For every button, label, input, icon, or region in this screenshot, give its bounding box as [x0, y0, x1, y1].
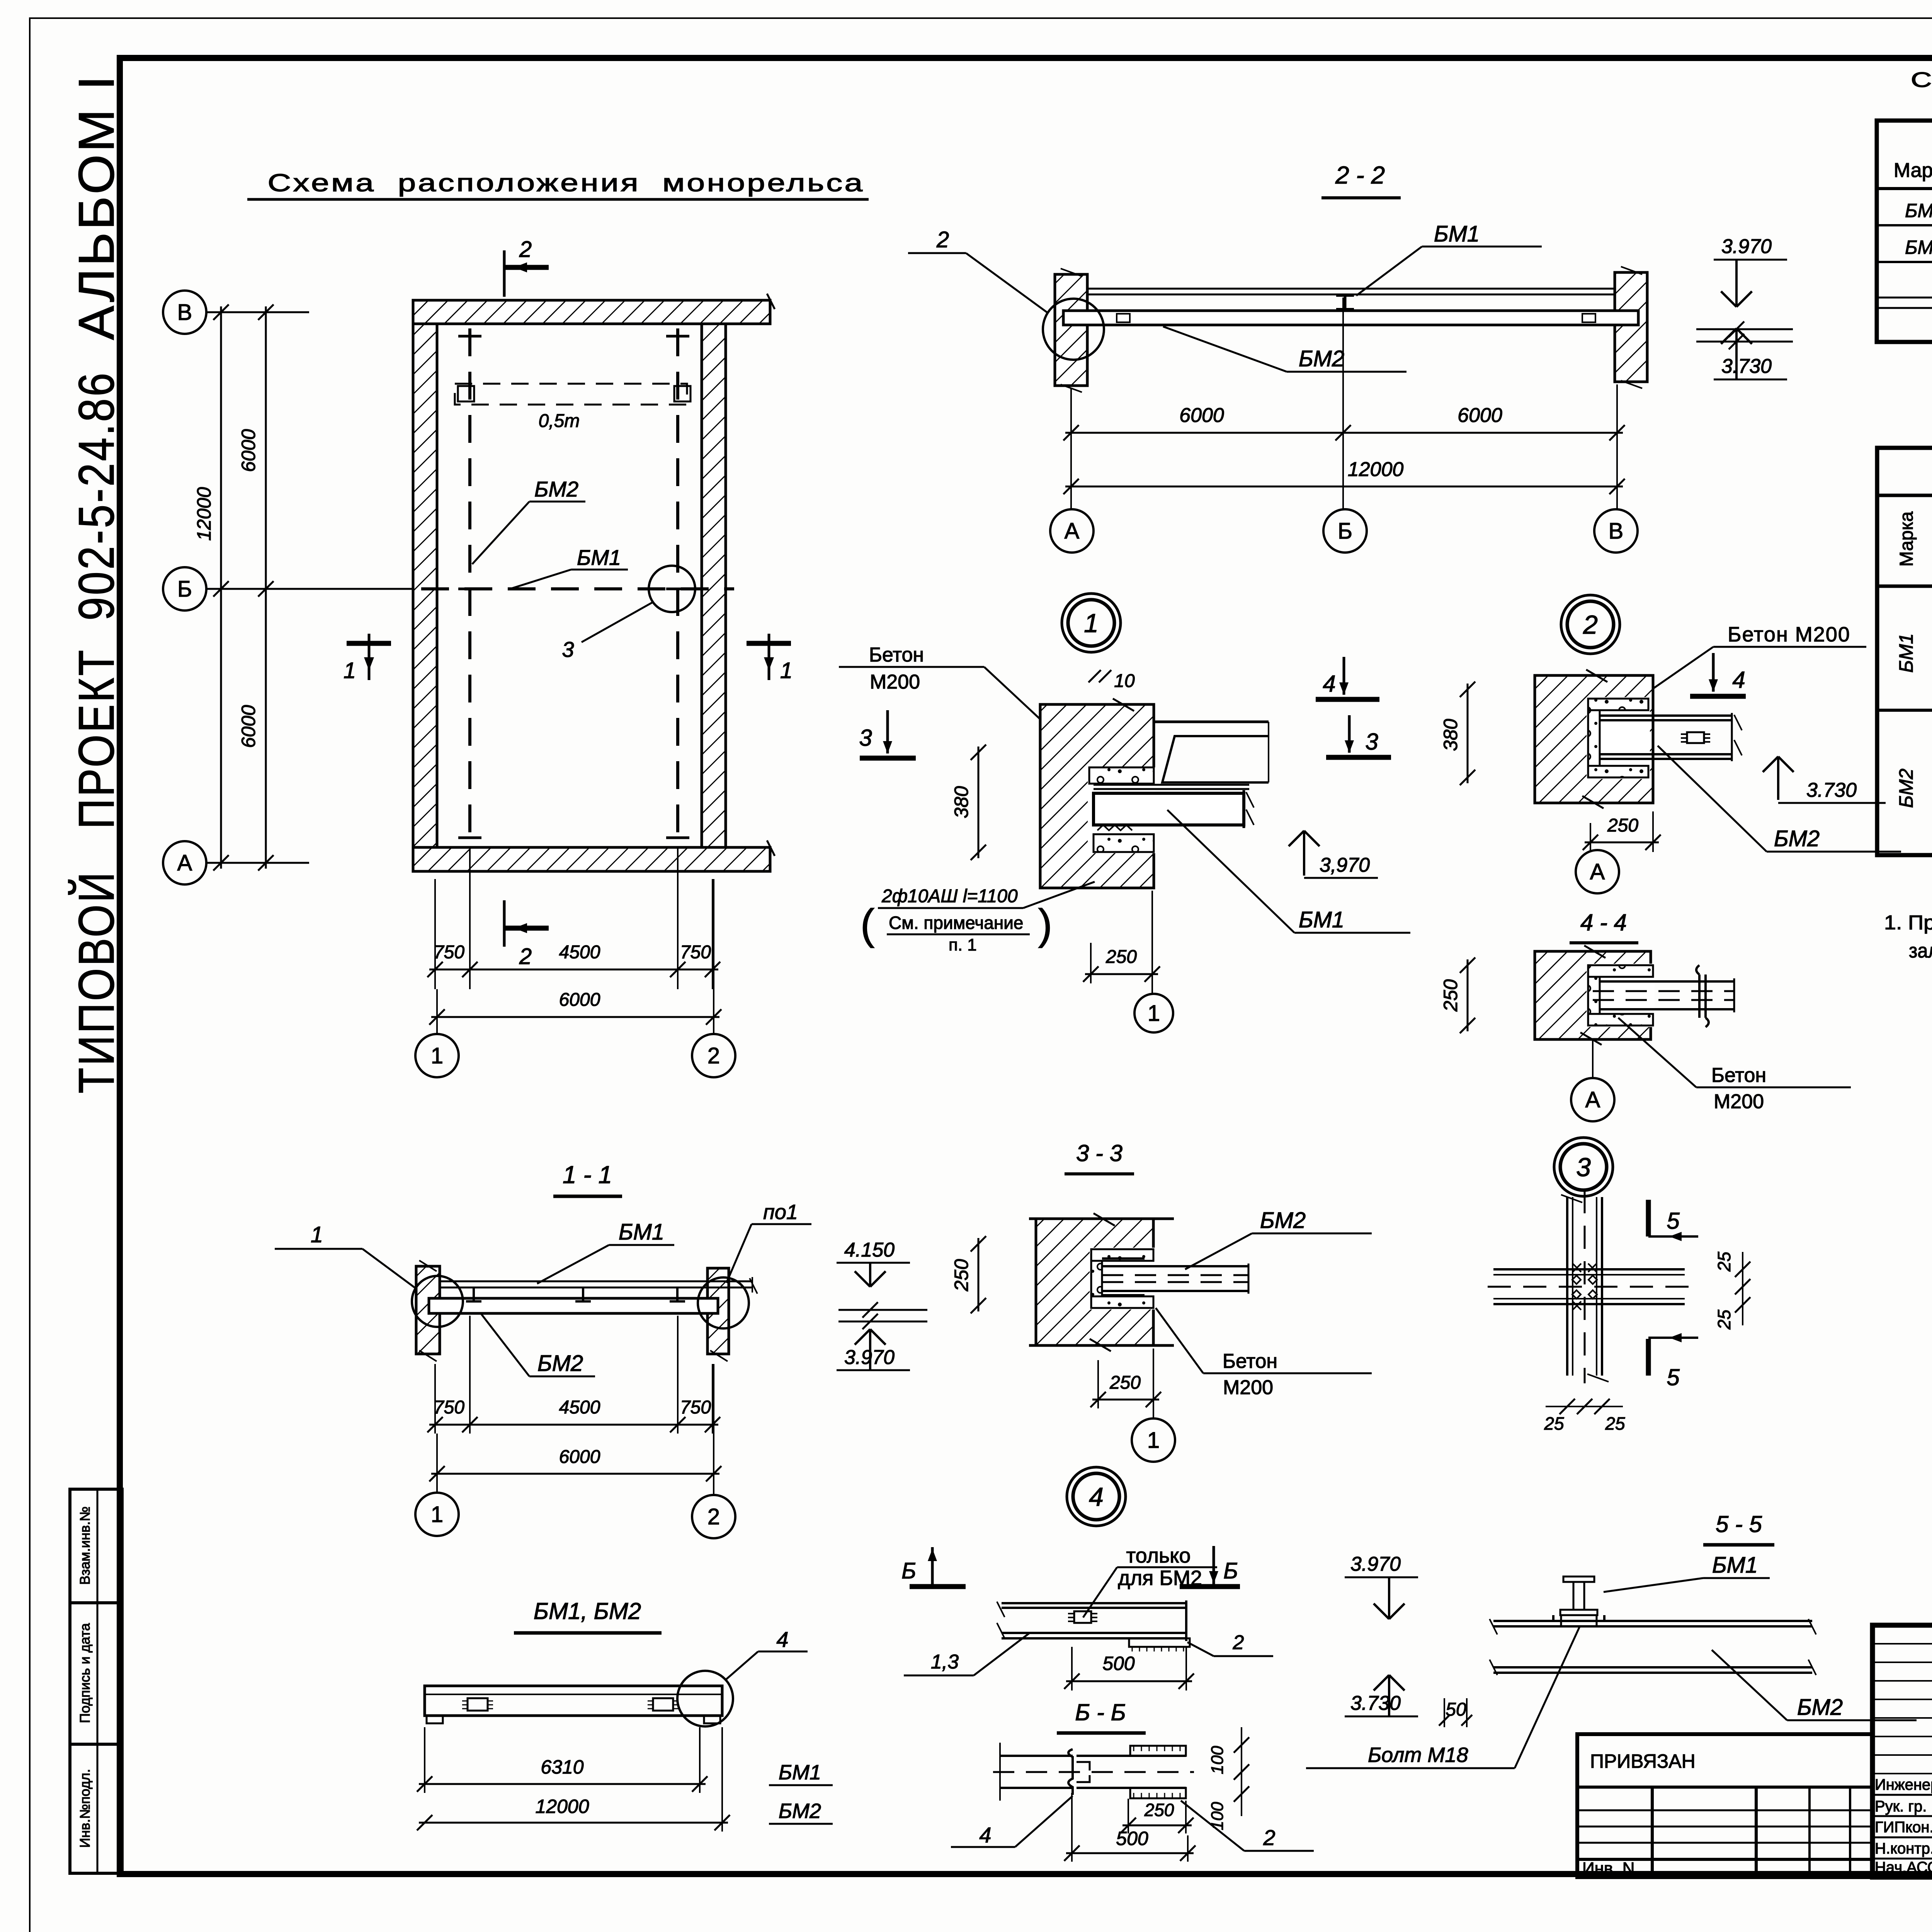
plan section flag 2 bottom — [503, 900, 506, 947]
2-2 beam fixing plates — [1117, 314, 1130, 322]
svg-text:500: 500 — [1102, 1653, 1135, 1674]
svg-text:Бетон: Бетон — [1223, 1350, 1277, 1372]
node2 dim 250 — [1585, 842, 1659, 844]
svg-text:100: 100 — [1208, 1746, 1227, 1774]
plan axis end ticks — [458, 335, 481, 338]
svg-text:25: 25 — [1714, 1252, 1734, 1272]
svg-text:3.730: 3.730 — [1806, 779, 1857, 801]
node3 dims 25/25 bottom — [1546, 1406, 1623, 1407]
svg-text:Б - Б: Б - Б — [1075, 1699, 1126, 1725]
axis circle В — [163, 291, 206, 334]
4-4 wall breaks — [1584, 946, 1605, 958]
title block left thin rows — [1872, 1643, 1932, 1645]
2-2 right wall — [1615, 272, 1647, 382]
svg-text:3: 3 — [1576, 1153, 1591, 1182]
node marker 4 (double circle) — [1067, 1467, 1126, 1526]
privyazan header line — [1577, 1786, 1872, 1789]
svg-text:Марка: Марка — [1894, 159, 1932, 182]
plan bottom extension lines — [434, 879, 436, 989]
axis circle Б (2-2) — [1323, 509, 1367, 553]
spec table frame — [1877, 121, 1932, 342]
svg-text:Болт М18: Болт М18 — [1368, 1743, 1468, 1767]
svg-text:380: 380 — [1440, 719, 1461, 751]
node2 elevation 3.730 — [1777, 757, 1779, 800]
node2 beam БМ2 flanges — [1600, 714, 1732, 717]
Б-Б dim 500 — [1071, 1793, 1073, 1862]
svg-text:БМ2: БМ2 — [1774, 826, 1820, 851]
svg-text:2: 2 — [1583, 610, 1598, 639]
node2 dim 380 — [1467, 684, 1469, 783]
Б-Б left end ticks — [999, 1743, 1001, 1801]
svg-text:6000: 6000 — [559, 990, 600, 1010]
node1 concrete encasement — [1089, 767, 1154, 784]
svg-text:1: 1 — [1148, 1001, 1160, 1026]
svg-text:Бетон М200: Бетон М200 — [1728, 623, 1850, 646]
svg-text:380: 380 — [951, 786, 972, 818]
node4 bottom plate — [1129, 1638, 1190, 1647]
1-1 left wall — [416, 1266, 440, 1354]
node1 anchor zigzag — [1097, 825, 1132, 830]
1-1 extension lines — [434, 1364, 436, 1434]
axis leader lines — [206, 311, 309, 313]
node marker 3 (double circle) — [1554, 1138, 1613, 1196]
Б-Б dashed centerline — [993, 1771, 1194, 1773]
left strip table — [70, 1489, 122, 1873]
beam drawing node circle — [677, 1671, 733, 1726]
node3 horizontal beam БМ1 — [1493, 1268, 1685, 1270]
axis circle 1 (plan) — [415, 1034, 459, 1077]
svg-text:Рук. гр.: Рук. гр. — [1875, 1798, 1927, 1815]
Б-Б dim 100 top — [1241, 1727, 1242, 1785]
svg-text:4 - 4: 4 - 4 — [1580, 910, 1627, 935]
5-5 beam БМ2 bottom flange — [1493, 1666, 1812, 1668]
svg-text:Н.контр.: Н.контр. — [1875, 1840, 1932, 1857]
svg-text:6310: 6310 — [541, 1756, 583, 1778]
5-5 beam БМ2 top flange — [1493, 1620, 1812, 1622]
svg-text:6000: 6000 — [559, 1447, 600, 1467]
node2 concrete U-block — [1588, 699, 1648, 710]
1-1 rail end break — [752, 1277, 753, 1293]
svg-text:Б: Б — [1223, 1558, 1238, 1583]
svg-text:3.970: 3.970 — [1721, 235, 1772, 258]
svg-text:ТИПОВОЙ ПРОЕКТ 902-5-24.86: ТИПОВОЙ ПРОЕКТ 902-5-24.86 — [68, 371, 124, 1094]
plan right wall — [702, 324, 726, 847]
5-5 rail БМ1 cross-section — [1563, 1577, 1594, 1582]
svg-text:А: А — [177, 850, 192, 876]
plan section flag 1 right — [747, 641, 791, 646]
node4 fixing plate — [1074, 1611, 1091, 1623]
plan section flag 2 top — [503, 250, 506, 297]
svg-text:12000: 12000 — [1348, 458, 1404, 481]
svg-text:п. 1: п. 1 — [949, 935, 977, 954]
2-2 elevation level lines — [1696, 328, 1793, 330]
svg-text:БМ1: БМ1 — [1712, 1553, 1758, 1578]
spec table row lines — [1877, 224, 1932, 226]
4-4 slot underlay — [1587, 964, 1655, 1027]
4-4 axis circle А — [1592, 1039, 1594, 1077]
axis circle А (2-2) — [1050, 509, 1094, 553]
svg-text:Б: Б — [901, 1558, 916, 1583]
1-1 beam БМ2 — [429, 1298, 718, 1313]
node4 beam break left — [997, 1602, 1005, 1617]
svg-text:(: ( — [861, 901, 875, 948]
node4 beam БМ2 elevation — [1002, 1602, 1186, 1604]
plan left wall — [413, 324, 437, 847]
svg-text:БМ2: БМ2 — [534, 477, 578, 501]
2-2 rail I symbol — [1344, 294, 1347, 309]
node2 wall breaks — [1586, 670, 1607, 682]
2-2 left wall — [1055, 274, 1087, 386]
2-2 wall break marks — [1061, 269, 1082, 276]
vedomost table frame — [1877, 448, 1932, 855]
4-4 concrete U-block — [1588, 965, 1653, 977]
svg-text:только: только — [1126, 1544, 1191, 1567]
plan top wall — [413, 300, 770, 324]
axis circle 2 (plan) — [692, 1034, 735, 1077]
svg-text:В: В — [1609, 519, 1624, 544]
svg-text:1: 1 — [1147, 1428, 1160, 1453]
svg-text:Бетон: Бетон — [1711, 1064, 1766, 1087]
node4 dim 500 — [1071, 1647, 1073, 1690]
svg-text:1 - 1: 1 - 1 — [563, 1161, 612, 1189]
svg-text:100: 100 — [1208, 1802, 1227, 1830]
1-1 node circle left — [412, 1276, 463, 1327]
3-3 axis circle 1 — [1132, 1418, 1175, 1462]
svg-text:БМ1: БМ1 — [1895, 633, 1917, 673]
svg-text:3: 3 — [859, 725, 872, 751]
plan beam БМ2 axis right (dashed) — [676, 328, 679, 844]
svg-text:2: 2 — [936, 227, 949, 252]
svg-text:750: 750 — [434, 1397, 464, 1418]
svg-text:4: 4 — [1323, 671, 1335, 697]
svg-text:БМ1: БМ1 — [619, 1219, 664, 1245]
svg-text:БМ1: БМ1 — [779, 1761, 821, 1784]
4-4 beam dashed — [1600, 980, 1734, 983]
2-2 dim line 12000 — [1065, 486, 1623, 488]
svg-text:4500: 4500 — [559, 942, 600, 963]
3-3 wall breaks — [1094, 1213, 1115, 1226]
svg-text:Марка: Марка — [1896, 511, 1917, 566]
plan section flag 1 left — [347, 641, 391, 646]
svg-text:по1: по1 — [763, 1201, 798, 1224]
axis circle Б — [163, 567, 206, 611]
node2 slot underlay — [1587, 697, 1650, 779]
plan beam БМ2 axis left (dashed) — [468, 328, 471, 844]
svg-text:2: 2 — [519, 237, 532, 262]
node2 beam end break — [1731, 713, 1733, 761]
svg-text:250: 250 — [1607, 815, 1638, 836]
svg-text:2: 2 — [519, 944, 532, 969]
svg-text:3.730: 3.730 — [1350, 1692, 1401, 1714]
svg-text:А: А — [1590, 859, 1605, 884]
beam feet — [427, 1716, 443, 1723]
Б-Б dim 250 — [1128, 1799, 1129, 1833]
3-3 beam БМ2 to right — [1102, 1265, 1248, 1267]
svg-text:М200: М200 — [870, 671, 920, 693]
svg-text:БМ2: БМ2 — [1260, 1208, 1306, 1233]
2-2 node circle at left support — [1043, 299, 1104, 360]
svg-text:АЛЬБОМ I: АЛЬБОМ I — [68, 73, 124, 340]
svg-text:4: 4 — [1732, 667, 1745, 693]
svg-text:ПРИВЯЗАН: ПРИВЯЗАН — [1590, 1750, 1696, 1772]
node1 axis circle 1 — [1134, 994, 1173, 1032]
node marker 2 (double circle) — [1561, 595, 1620, 654]
Б-Б beam right part — [1077, 1755, 1186, 1757]
svg-text:10: 10 — [1114, 671, 1135, 691]
node2 fixing plate — [1687, 732, 1704, 743]
node1 wall break — [1113, 699, 1134, 711]
svg-text:12000: 12000 — [193, 487, 215, 541]
5-5 beam breaks — [1490, 1619, 1497, 1634]
1-1 dim 750-4500-750 — [429, 1424, 718, 1426]
svg-text:БМ2: БМ2 — [537, 1351, 583, 1376]
node1 elevation 3.970 — [1303, 831, 1305, 876]
svg-text:25: 25 — [1605, 1413, 1625, 1434]
2-2 extension lines — [1070, 388, 1072, 509]
2-2 rail БМ1 lines — [1087, 288, 1615, 290]
svg-text:4: 4 — [979, 1823, 991, 1847]
svg-text:1: 1 — [780, 658, 793, 683]
3-3 embedded channel lines — [1102, 1257, 1145, 1260]
svg-text:Бетон: Бетон — [869, 644, 924, 666]
svg-text:250: 250 — [1105, 947, 1137, 967]
node marker 1 (double circle) — [1062, 594, 1121, 652]
plan dim line 750-4500-750 — [429, 969, 718, 971]
plan bottom wall — [413, 847, 770, 871]
svg-text:500: 500 — [1116, 1828, 1148, 1849]
vedomost title row — [1877, 494, 1932, 497]
spec table header row line — [1877, 187, 1932, 190]
1-1 axis circle 2 — [692, 1495, 735, 1538]
svg-text:ГИПкон.: ГИПкон. — [1875, 1819, 1932, 1836]
5-5 rail clamps — [1553, 1620, 1565, 1622]
4-4 dim 250 — [1467, 959, 1469, 1031]
svg-text:6000: 6000 — [1179, 404, 1224, 427]
2-2 beam БМ2 — [1063, 311, 1638, 325]
svg-text:3: 3 — [562, 637, 574, 662]
svg-text:Взам.инв.№: Взам.инв.№ — [77, 1506, 93, 1585]
node2 axis circle А — [1576, 850, 1619, 893]
1-1 wall breaks — [419, 1260, 437, 1271]
svg-text:750: 750 — [680, 1397, 711, 1418]
svg-text:БМ2: БМ2 — [1905, 236, 1932, 258]
svg-text:4500: 4500 — [559, 1397, 600, 1418]
svg-text:Инв.№подл.: Инв.№подл. — [77, 1769, 93, 1848]
privyazan rows — [1577, 1810, 1872, 1811]
svg-text:Инв. N: Инв. N — [1582, 1859, 1635, 1878]
node1 dim 250 — [1090, 943, 1092, 983]
svg-text:2: 2 — [1233, 1631, 1244, 1654]
svg-text:1. При возведении кирпичной: 1. При возведении кирпичной кладки по ос… — [1884, 912, 1932, 934]
node1 beam БМ1 — [1094, 793, 1244, 825]
beam fixing plates — [468, 1698, 488, 1711]
svg-text:БМ2: БМ2 — [1797, 1695, 1843, 1720]
svg-text:БМ1: БМ1 — [1299, 907, 1344, 932]
svg-text:Б: Б — [1338, 519, 1352, 544]
svg-text:250: 250 — [1440, 979, 1461, 1012]
1-1 axis circle 1 — [415, 1493, 459, 1536]
svg-text:Схема расположения монорельс: Схема расположения монорельса — [268, 169, 865, 197]
svg-text:3.730: 3.730 — [1721, 355, 1772, 378]
svg-text:5: 5 — [1667, 1208, 1680, 1234]
Б-Б top plate — [1130, 1746, 1186, 1756]
1-1 elevation level lines — [838, 1309, 927, 1311]
svg-text:1: 1 — [344, 658, 356, 683]
node2 section flag 4 — [1712, 653, 1715, 692]
node3 section flag 5 bottom — [1646, 1339, 1651, 1376]
svg-text:250: 250 — [1109, 1372, 1141, 1393]
svg-text:1: 1 — [311, 1222, 323, 1247]
svg-text:2ф10АШ l=1100: 2ф10АШ l=1100 — [881, 886, 1018, 906]
svg-text:А: А — [1065, 519, 1080, 544]
1-1 dim 6000 — [431, 1473, 719, 1475]
1-1 node circle right — [698, 1277, 749, 1328]
4-4 wall hatched — [1535, 951, 1651, 1039]
svg-text:750: 750 — [680, 942, 711, 963]
beam dim 6310 БМ1 — [424, 1727, 425, 1793]
svg-text:0,5т: 0,5т — [539, 411, 580, 431]
node2 wall hatched — [1535, 675, 1653, 803]
node1 beam break — [1246, 792, 1254, 808]
vertical dim line 6000 segments — [265, 306, 267, 869]
svg-text:3,970: 3,970 — [1320, 854, 1370, 876]
svg-text:2 - 2: 2 - 2 — [1335, 161, 1385, 189]
3-3 concrete U-block — [1091, 1249, 1153, 1261]
svg-text:1: 1 — [431, 1043, 443, 1068]
svg-text:БМ2: БМ2 — [779, 1799, 821, 1823]
4-4 anchor bolt — [1698, 975, 1701, 1018]
svg-text:Подпись и дата: Подпись и дата — [77, 1623, 93, 1723]
node1 brick wall hatched — [1040, 704, 1154, 888]
svg-text:6000: 6000 — [238, 705, 259, 748]
Б-Б dim 100 bottom — [1241, 1762, 1242, 1816]
3-3 slot underlay — [1090, 1248, 1155, 1310]
svg-text:25: 25 — [1714, 1310, 1734, 1330]
node1 dim 380 — [978, 747, 980, 858]
svg-text:2: 2 — [707, 1504, 720, 1529]
svg-text:2: 2 — [1263, 1825, 1275, 1850]
1-1 right wall — [707, 1268, 729, 1354]
svg-text:заложить два анкера для: заложить два анкера для анкеровки балки … — [1909, 940, 1932, 962]
svg-text:Б: Б — [177, 577, 192, 602]
node3 vertical beam breaks — [1561, 1195, 1582, 1202]
svg-text:5: 5 — [1667, 1364, 1680, 1390]
svg-text:750: 750 — [434, 942, 464, 963]
svg-text:БМ2: БМ2 — [1299, 346, 1344, 371]
svg-text:3: 3 — [1365, 729, 1378, 755]
axis circle А — [163, 841, 206, 884]
svg-text:1: 1 — [431, 1502, 443, 1527]
svg-text:БМ1: БМ1 — [577, 545, 621, 570]
svg-text:БМ1: БМ1 — [1434, 221, 1480, 247]
svg-text:БМ1, БМ2: БМ1, БМ2 — [534, 1598, 641, 1624]
svg-text:для БМ2: для БМ2 — [1118, 1566, 1202, 1590]
node1 floor slab — [1155, 721, 1269, 723]
plan detail circle node 3 — [649, 566, 695, 612]
svg-text:БМ1: БМ1 — [1905, 200, 1932, 221]
svg-text:25: 25 — [1544, 1413, 1564, 1434]
title block frame — [1872, 1625, 1932, 1877]
3-3 dim 250 bottom — [1097, 1360, 1099, 1408]
node3 dims 25/25 right — [1742, 1252, 1743, 1325]
svg-text:1,3: 1,3 — [931, 1651, 959, 1673]
node3 bolts — [1572, 1276, 1581, 1284]
svg-text:Спецификация к схеме: Спецификация к схеме расположения — [1911, 68, 1932, 92]
svg-text:4.150: 4.150 — [844, 1239, 895, 1261]
svg-text:250: 250 — [951, 1259, 972, 1292]
Б-Б saddle plate — [1068, 1749, 1073, 1795]
beam dim 12000 БМ2 — [721, 1727, 723, 1832]
svg-text:6000: 6000 — [238, 429, 259, 472]
node1 concrete slot underlay — [1088, 767, 1155, 853]
plan wall break marks — [767, 294, 775, 309]
node3 vertical beam БМ2 — [1566, 1197, 1568, 1376]
svg-text:5 - 5: 5 - 5 — [1716, 1511, 1762, 1537]
svg-text:4: 4 — [776, 1627, 788, 1651]
plan beam БМ1 axis (dashed) — [421, 587, 734, 590]
svg-text:12000: 12000 — [535, 1796, 589, 1817]
plan dim line 6000 — [431, 1016, 719, 1018]
svg-text:2: 2 — [707, 1043, 720, 1068]
svg-text:БМ2: БМ2 — [1895, 769, 1917, 808]
svg-text:В: В — [177, 300, 192, 325]
node1 rail lines — [1094, 784, 1249, 786]
1-1 rail БМ1 lines — [440, 1281, 752, 1282]
svg-text:М200: М200 — [1223, 1376, 1273, 1399]
svg-text:3.970: 3.970 — [1350, 1553, 1401, 1575]
svg-text:3 - 3: 3 - 3 — [1076, 1140, 1122, 1166]
axis circle В (2-2) — [1594, 509, 1638, 553]
svg-text:6000: 6000 — [1458, 404, 1502, 427]
3-3 dim 250 vertical — [978, 1238, 980, 1311]
vertical dim line 12000 (left) — [220, 306, 222, 869]
svg-text:См. примечание: См. примечание — [889, 913, 1024, 933]
node1 gap dim 10 — [1088, 670, 1101, 682]
node4 section flag Б right — [1213, 1546, 1215, 1584]
Б-Б bottom plate — [1130, 1788, 1186, 1798]
svg-text:): ) — [1038, 901, 1053, 948]
svg-text:4: 4 — [1089, 1482, 1104, 1512]
privyazan verticals — [1651, 1787, 1654, 1877]
beam БМ1/БМ2 body — [425, 1686, 722, 1716]
svg-text:250: 250 — [1144, 1800, 1174, 1820]
svg-text:Нач.АСО: Нач.АСО — [1875, 1859, 1932, 1876]
plan trolley 0.5t (dashed) — [455, 384, 687, 405]
Б-Б beam left part — [1000, 1755, 1073, 1757]
2-2 dim line 6000+6000 — [1065, 432, 1623, 434]
1-1 rail clamps — [473, 1287, 475, 1301]
3-3 wall hatched — [1036, 1219, 1153, 1345]
node3 section flag 5 top — [1646, 1200, 1651, 1236]
svg-text:Инженер: Инженер — [1875, 1776, 1932, 1793]
svg-text:А: А — [1585, 1087, 1600, 1112]
privyazan table frame — [1577, 1734, 1872, 1877]
svg-text:1: 1 — [1084, 609, 1099, 638]
svg-text:М200: М200 — [1714, 1090, 1764, 1113]
